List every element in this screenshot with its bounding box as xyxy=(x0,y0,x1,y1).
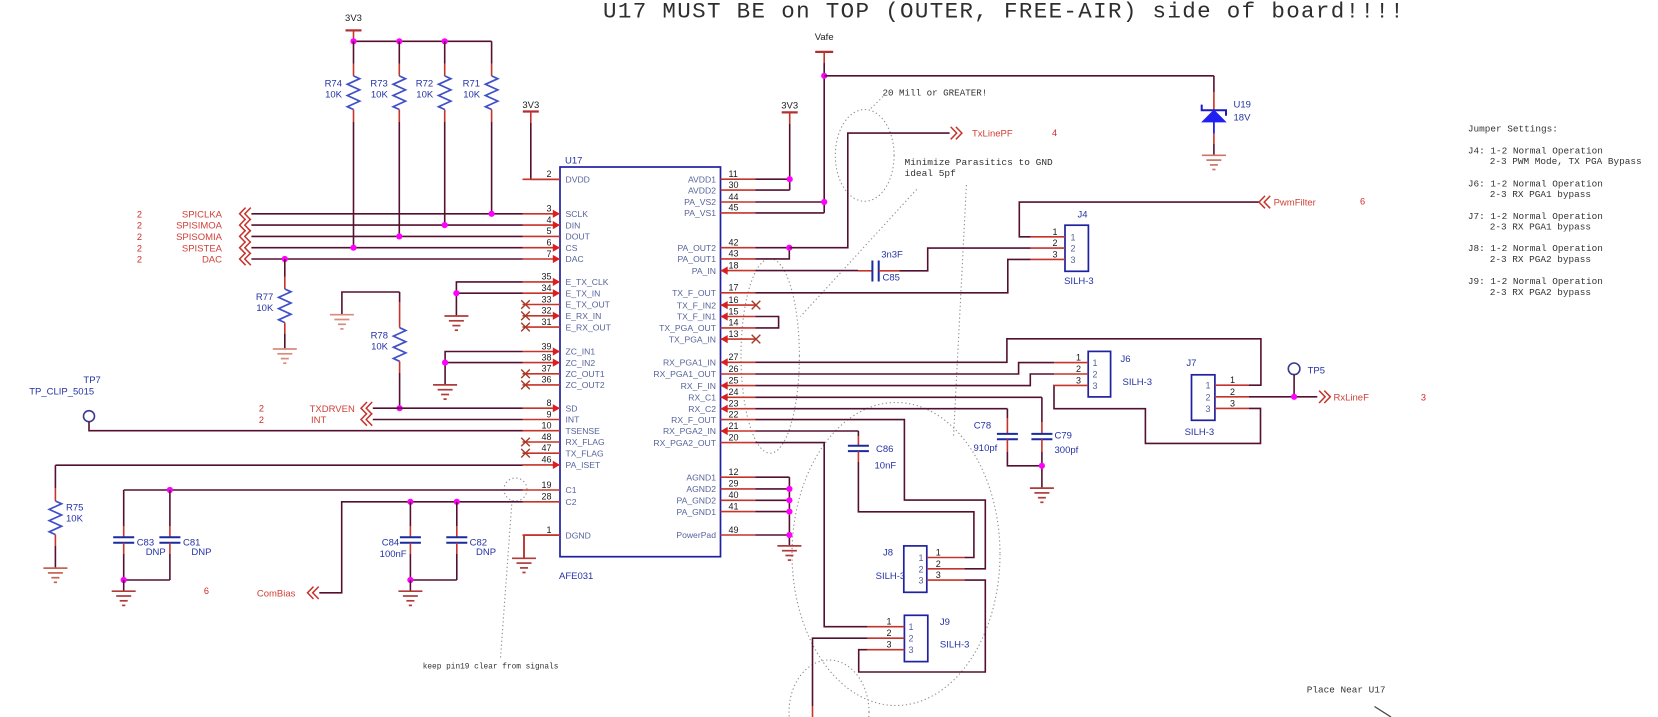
pin J4-3 xyxy=(1031,258,1065,260)
wire R71 to SCLK row xyxy=(491,122,493,214)
connector J8 SILH-3 xyxy=(904,546,927,592)
svg-text:24: 24 xyxy=(729,387,739,397)
svg-text:31: 31 xyxy=(541,317,551,327)
node PA_GND1 xyxy=(786,509,792,515)
svg-text:TX_F_IN2: TX_F_IN2 xyxy=(677,300,716,310)
node SPISIMOA junction xyxy=(442,222,448,228)
svg-text:R78: R78 xyxy=(371,331,388,342)
svg-text:2: 2 xyxy=(1071,244,1076,254)
svg-text:TP_CLIP_5015: TP_CLIP_5015 xyxy=(29,386,94,397)
svg-text:E_RX_OUT: E_RX_OUT xyxy=(566,322,612,332)
svg-text:28: 28 xyxy=(541,492,551,502)
ground R78 xyxy=(330,315,354,329)
node AGND2 xyxy=(786,486,792,492)
wire SPISTEA net xyxy=(251,247,522,249)
wire RX_PGA1_IN to J7 pin1 xyxy=(755,339,1261,385)
wire PowerPad net xyxy=(755,534,789,536)
wire Vafe rail to U19 xyxy=(824,75,1214,77)
pin J8-2 xyxy=(927,568,965,570)
pin J6-1 xyxy=(1054,362,1088,364)
svg-text:3V3: 3V3 xyxy=(522,100,539,111)
svg-text:2-3 RX PGA1 bypass: 2-3 RX PGA1 bypass xyxy=(1490,221,1591,232)
svg-text:DNP: DNP xyxy=(476,547,496,558)
pin 18 PA_IN xyxy=(721,270,756,272)
pin J8-1 xyxy=(927,557,965,559)
svg-text:16: 16 xyxy=(729,295,739,305)
wire DVDD net xyxy=(530,112,532,124)
svg-text:SILH-3: SILH-3 xyxy=(940,640,970,651)
ground R77 xyxy=(273,349,297,363)
svg-text:6: 6 xyxy=(546,238,551,248)
pin 16 TX_F_IN2 xyxy=(721,304,756,306)
pin 7 DAC xyxy=(523,258,561,260)
svg-text:R72: R72 xyxy=(416,79,433,90)
svg-text:45: 45 xyxy=(729,203,739,213)
pin 17 TX_F_OUT xyxy=(721,292,756,294)
resistor R74 xyxy=(347,76,359,110)
svg-text:TX_FLAG: TX_FLAG xyxy=(566,448,605,458)
svg-text:U19: U19 xyxy=(1234,99,1251,110)
svg-text:RX_F_IN: RX_F_IN xyxy=(681,381,716,391)
svg-text:U17: U17 xyxy=(565,156,582,167)
resistor R77 xyxy=(284,259,286,277)
svg-text:DVDD: DVDD xyxy=(566,175,590,185)
svg-text:RX_PGA2_OUT: RX_PGA2_OUT xyxy=(653,438,716,448)
port RxLineF xyxy=(1319,391,1330,403)
svg-text:PA_GND1: PA_GND1 xyxy=(677,507,717,517)
svg-text:J8: J8 xyxy=(883,547,893,558)
pin 29 AGND2 xyxy=(721,488,756,490)
wire RX_F_OUT to J8 pin2 xyxy=(755,420,985,569)
svg-text:9: 9 xyxy=(546,409,551,419)
pin 19 C1 xyxy=(523,489,561,491)
pin J7-2 xyxy=(1215,396,1249,398)
pin 45 PA_VS1 xyxy=(721,212,756,214)
pin 28 C2 xyxy=(523,501,561,503)
wire PA_OUT1 net xyxy=(755,248,789,259)
svg-text:26: 26 xyxy=(729,364,739,374)
svg-text:Minimize Parasitics to GND: Minimize Parasitics to GND xyxy=(905,157,1054,168)
svg-text:3V3: 3V3 xyxy=(345,13,362,24)
svg-text:14: 14 xyxy=(729,318,739,328)
svg-text:TX_F_OUT: TX_F_OUT xyxy=(672,288,717,298)
svg-text:2: 2 xyxy=(137,209,142,219)
svg-text:3: 3 xyxy=(1052,249,1057,259)
svg-text:SPISOMIA: SPISOMIA xyxy=(176,232,223,243)
resistor R78 xyxy=(399,292,401,302)
svg-text:27: 27 xyxy=(729,352,739,362)
wire PA_VS2 net xyxy=(755,201,824,203)
svg-text:33: 33 xyxy=(541,294,551,304)
svg-text:2: 2 xyxy=(259,415,264,425)
connector J7 SILH-3 xyxy=(1192,375,1215,421)
pin 47 TX_FLAG xyxy=(523,452,561,454)
capacitor C78 xyxy=(1006,409,1008,418)
resistor R73 xyxy=(393,76,405,110)
svg-text:SILH-3: SILH-3 xyxy=(1123,377,1153,388)
svg-text:1: 1 xyxy=(1093,358,1098,368)
svg-text:2: 2 xyxy=(1205,392,1210,402)
wire R78 top to ground xyxy=(342,292,400,315)
pin J4-2 xyxy=(1031,247,1065,249)
svg-text:R73: R73 xyxy=(370,79,387,90)
pin 12 AGND1 xyxy=(721,476,756,478)
svg-text:18V: 18V xyxy=(1234,112,1252,123)
svg-text:2: 2 xyxy=(1052,238,1057,248)
wire R74 column xyxy=(353,41,355,63)
ground C84 xyxy=(398,591,422,605)
svg-text:ZC_IN1: ZC_IN1 xyxy=(566,347,596,357)
pin 26 RX_PGA1_OUT xyxy=(721,373,756,375)
svg-text:3: 3 xyxy=(1421,393,1426,403)
svg-text:PA_OUT1: PA_OUT1 xyxy=(677,254,716,264)
connector J4 SILH-3 xyxy=(1065,225,1088,271)
connector J6 SILH-3 xyxy=(1088,351,1110,397)
pin 42 PA_OUT2 xyxy=(721,247,756,249)
pin 43 PA_OUT1 xyxy=(721,258,756,260)
wire AVDD2 net xyxy=(755,189,790,191)
pin 20 RX_PGA2_OUT xyxy=(721,442,756,444)
pin 23 RX_C2 xyxy=(721,408,756,410)
pin 25 RX_F_IN xyxy=(721,385,756,387)
svg-text:41: 41 xyxy=(729,501,739,511)
svg-text:1: 1 xyxy=(1052,227,1057,237)
svg-text:TX_PGA_IN: TX_PGA_IN xyxy=(669,334,716,344)
svg-text:INT: INT xyxy=(311,415,327,426)
svg-text:23: 23 xyxy=(729,399,739,409)
svg-text:11: 11 xyxy=(729,169,738,179)
wire SPISOMIA net xyxy=(251,235,522,237)
svg-text:3V3: 3V3 xyxy=(781,101,798,112)
svg-text:J7: 1-2 Normal Operation: J7: 1-2 Normal Operation xyxy=(1468,211,1603,222)
wire C85 to J4 pin2 xyxy=(899,248,1030,271)
pin 46 PA_ISET xyxy=(523,464,561,466)
svg-text:DIN: DIN xyxy=(566,220,581,230)
svg-text:TP7: TP7 xyxy=(83,375,100,386)
svg-text:5: 5 xyxy=(546,226,551,236)
svg-text:RxLineF: RxLineF xyxy=(1334,392,1370,403)
wire RX_C2 to C78 xyxy=(755,408,1007,410)
svg-text:910pf: 910pf xyxy=(974,443,998,454)
layout note ellipse (RX jumpers J8 J9) xyxy=(792,403,1000,706)
svg-text:PA_IN: PA_IN xyxy=(692,266,716,276)
wire RX_F_IN to J6 pin2 xyxy=(755,374,1054,386)
node TP5 junction xyxy=(1291,394,1297,400)
pin 31 E_RX_OUT xyxy=(523,326,561,328)
svg-text:RX_PGA1_IN: RX_PGA1_IN xyxy=(663,358,716,368)
svg-text:TP5: TP5 xyxy=(1308,365,1325,376)
pin 38 ZC_IN2 xyxy=(523,362,561,364)
svg-text:2: 2 xyxy=(1076,364,1081,374)
svg-text:300pf: 300pf xyxy=(1055,445,1079,456)
wire PA_GND2 net xyxy=(755,499,789,501)
pin 11 AVDD1 xyxy=(721,178,756,180)
svg-text:40: 40 xyxy=(729,490,739,500)
svg-text:C2: C2 xyxy=(566,497,577,507)
svg-text:1: 1 xyxy=(1071,232,1076,242)
svg-text:SPISTEA: SPISTEA xyxy=(182,243,223,254)
svg-text:E_RX_IN: E_RX_IN xyxy=(566,311,602,321)
pin 40 PA_GND2 xyxy=(721,499,756,501)
svg-text:PowerPad: PowerPad xyxy=(676,530,716,540)
svg-text:R75: R75 xyxy=(66,503,83,514)
note leader (Minimize Parasitics to RX ellipse) xyxy=(954,185,967,437)
svg-text:1: 1 xyxy=(936,548,941,558)
svg-text:6: 6 xyxy=(1360,196,1365,206)
svg-text:1: 1 xyxy=(1205,381,1210,391)
svg-text:10K: 10K xyxy=(325,90,343,101)
note leader (keep pin19 clear) xyxy=(501,501,513,658)
svg-text:21: 21 xyxy=(729,421,739,431)
capacitor C84 xyxy=(409,502,411,526)
pin J9-3 xyxy=(867,649,904,651)
svg-text:30: 30 xyxy=(729,180,739,190)
wire R73 column xyxy=(398,41,400,63)
svg-text:12: 12 xyxy=(729,467,739,477)
svg-text:7: 7 xyxy=(546,249,551,259)
node rail-R74 xyxy=(350,38,356,44)
svg-text:J6: 1-2 Normal Operation: J6: 1-2 Normal Operation xyxy=(1468,178,1603,189)
wire PA_VS1 net xyxy=(755,212,824,214)
svg-text:10K: 10K xyxy=(371,342,389,353)
layout note ellipse (bottom) xyxy=(789,660,869,717)
svg-text:39: 39 xyxy=(541,341,551,351)
pin 35 E_TX_CLK xyxy=(523,281,561,283)
svg-text:18: 18 xyxy=(729,260,739,270)
pin 34 E_TX_IN xyxy=(523,292,561,294)
svg-text:2: 2 xyxy=(936,559,941,569)
node C83 bottom xyxy=(121,577,127,583)
svg-text:R74: R74 xyxy=(325,79,342,90)
wire R72 column xyxy=(444,41,446,63)
svg-text:2: 2 xyxy=(1230,387,1235,397)
svg-text:2: 2 xyxy=(918,564,923,574)
svg-text:3: 3 xyxy=(1093,381,1098,391)
svg-text:Jumper Settings:: Jumper Settings: xyxy=(1468,124,1558,135)
svg-text:1: 1 xyxy=(1230,375,1235,385)
svg-text:C1: C1 xyxy=(566,485,577,495)
wire E_TX_CLK to ground xyxy=(456,282,522,316)
wire TXDRVEN net xyxy=(373,407,523,409)
svg-text:PA_GND2: PA_GND2 xyxy=(677,496,717,506)
svg-text:2: 2 xyxy=(1093,370,1098,380)
wire AGND1 net xyxy=(755,476,789,478)
svg-text:SILH-3: SILH-3 xyxy=(1064,276,1094,287)
svg-text:43: 43 xyxy=(729,249,739,259)
wire J7 pin2 to RxLineF xyxy=(1249,396,1317,398)
node PA_VS junction xyxy=(821,199,827,205)
wire R71 lower lead xyxy=(491,110,493,123)
node AVDD junction xyxy=(787,176,793,182)
power 3V3 (pull-up rail) xyxy=(346,29,362,31)
wire TX_F_IN1 TX_PGA_OUT loop xyxy=(755,317,778,328)
wire J4 pin1 to PwmFilter xyxy=(1019,202,1259,237)
wire AGND rail xyxy=(788,477,790,546)
wire C84-C82 bottom rail xyxy=(410,579,456,581)
op-amp U17 AFE031 body xyxy=(560,167,721,557)
wire RX_PGA2_IN to C86 xyxy=(755,430,858,432)
svg-text:PA_OUT2: PA_OUT2 xyxy=(677,243,716,253)
svg-text:10K: 10K xyxy=(463,90,481,101)
pin 30 AVDD2 xyxy=(721,189,756,191)
wire SPICLKA net xyxy=(251,213,522,215)
wire SPISIMOA net xyxy=(251,224,522,226)
svg-text:44: 44 xyxy=(729,192,739,202)
layout note ellipse (TxLinePF trace) xyxy=(835,109,894,201)
svg-text:AGND2: AGND2 xyxy=(686,484,716,494)
wire ComBias net xyxy=(319,502,522,593)
svg-text:RX_F_OUT: RX_F_OUT xyxy=(671,415,717,425)
note circle (keep pin19 clear) xyxy=(504,478,527,501)
power 3V3 (DVDD) xyxy=(523,110,539,112)
wire R74 to CS row xyxy=(353,122,355,248)
ground ZC xyxy=(433,385,457,399)
node C81 top xyxy=(167,487,173,493)
svg-text:17: 17 xyxy=(729,283,739,293)
svg-text:3: 3 xyxy=(1071,255,1076,265)
svg-text:3: 3 xyxy=(918,576,923,586)
svg-text:RX_FLAG: RX_FLAG xyxy=(566,437,605,447)
svg-text:DNP: DNP xyxy=(191,547,211,558)
svg-text:1: 1 xyxy=(909,622,914,632)
node SPICLKA junction xyxy=(489,211,495,217)
svg-text:DAC: DAC xyxy=(202,255,222,266)
capacitor C82 xyxy=(456,502,458,526)
pin 2 DVDD xyxy=(523,178,561,180)
svg-text:2: 2 xyxy=(546,169,551,179)
wire C86 to J8 pin1 xyxy=(858,462,974,558)
svg-text:38: 38 xyxy=(541,352,551,362)
svg-text:RX_PGA1_OUT: RX_PGA1_OUT xyxy=(653,369,716,379)
pin 22 RX_F_OUT xyxy=(721,419,756,421)
note leader (20 Mill) xyxy=(869,97,883,111)
svg-text:Place Near U17: Place Near U17 xyxy=(1307,685,1386,696)
svg-text:INT: INT xyxy=(566,415,581,425)
svg-text:49: 49 xyxy=(729,525,739,535)
wire AGND2 net xyxy=(755,488,789,490)
svg-text:2: 2 xyxy=(137,221,142,231)
svg-text:36: 36 xyxy=(541,375,551,385)
svg-text:48: 48 xyxy=(541,432,551,442)
svg-text:TxLinePF: TxLinePF xyxy=(972,129,1013,140)
svg-text:1: 1 xyxy=(886,617,891,627)
ground C78 C79 xyxy=(1030,488,1054,502)
node C82 top xyxy=(454,499,460,505)
svg-text:DAC: DAC xyxy=(566,254,584,264)
pin 21 RX_PGA2_IN xyxy=(721,430,756,432)
node PA_GND2 xyxy=(786,497,792,503)
node PA_OUT junction xyxy=(786,245,792,251)
svg-text:AVDD1: AVDD1 xyxy=(688,174,716,184)
resistor R71 xyxy=(485,76,497,110)
node Vafe rail junction xyxy=(821,73,827,79)
svg-text:ideal 5pf: ideal 5pf xyxy=(905,168,957,179)
svg-text:25: 25 xyxy=(729,375,739,385)
pin 36 ZC_OUT2 xyxy=(523,384,561,386)
svg-text:34: 34 xyxy=(541,283,551,293)
svg-text:J9: J9 xyxy=(940,617,950,628)
svg-text:47: 47 xyxy=(541,443,551,453)
svg-text:PA_ISET: PA_ISET xyxy=(566,460,601,470)
pin 39 ZC_IN1 xyxy=(523,351,561,353)
wire RX_PGA2_OUT to J9 pin1 xyxy=(755,443,867,627)
pin 5 DOUT xyxy=(523,235,561,237)
connector J9 SILH-3 xyxy=(904,615,927,661)
note leader (Place Near U17) xyxy=(1375,707,1392,717)
wire R73 lower lead xyxy=(398,110,400,123)
wire ZC_IN2 to ground xyxy=(445,362,522,364)
node SPISTEA junction xyxy=(350,245,356,251)
svg-text:2: 2 xyxy=(909,634,914,644)
wire PA_OUT2 net xyxy=(755,247,789,249)
svg-text:SCLK: SCLK xyxy=(566,209,589,219)
svg-text:3n3F: 3n3F xyxy=(881,250,903,261)
svg-text:E_TX_OUT: E_TX_OUT xyxy=(566,300,611,310)
svg-text:2: 2 xyxy=(137,243,142,253)
pin 14 TX_PGA_OUT xyxy=(721,327,756,329)
node DAC junction xyxy=(282,256,288,262)
svg-text:6: 6 xyxy=(204,586,209,596)
node C84 bottom xyxy=(407,577,413,583)
capacitor C85 xyxy=(755,270,858,272)
svg-text:15: 15 xyxy=(729,306,739,316)
node PowerPad xyxy=(786,532,792,538)
capacitor C79 xyxy=(1041,397,1043,422)
svg-text:ZC_OUT2: ZC_OUT2 xyxy=(566,380,605,390)
svg-text:PA_VS1: PA_VS1 xyxy=(684,208,716,218)
pin J9-1 xyxy=(867,626,904,628)
svg-text:C78: C78 xyxy=(974,421,991,432)
pin 15 TX_F_IN1 xyxy=(721,316,756,318)
svg-text:SPISIMOA: SPISIMOA xyxy=(176,221,223,232)
svg-text:10nF: 10nF xyxy=(875,461,897,472)
svg-text:ZC_IN2: ZC_IN2 xyxy=(566,358,596,368)
svg-text:PwmFilter: PwmFilter xyxy=(1274,198,1316,209)
svg-text:U17 MUST BE on TOP (OUTER, FRE: U17 MUST BE on TOP (OUTER, FREE-AIR) sid… xyxy=(603,0,1405,25)
node rail-R73 xyxy=(396,38,402,44)
wire J8 pin3 to J9 pin3 xyxy=(859,580,986,672)
pin 24 RX_C1 xyxy=(721,396,756,398)
ground E_TX xyxy=(444,316,468,330)
wire R74 lower lead xyxy=(353,110,355,123)
svg-text:SPICLKA: SPICLKA xyxy=(182,209,223,220)
pin 4 DIN xyxy=(523,224,561,226)
ground C83 xyxy=(112,591,136,605)
svg-text:AGND1: AGND1 xyxy=(686,472,716,482)
ground AGND xyxy=(777,546,801,560)
pin J6-2 xyxy=(1054,373,1088,375)
svg-text:20: 20 xyxy=(729,432,739,442)
svg-text:DNP: DNP xyxy=(146,547,166,558)
resistor R72 xyxy=(439,76,451,110)
pin J4-1 xyxy=(1031,236,1065,238)
node ZC junction xyxy=(442,360,448,366)
wire C83 ground lead xyxy=(123,580,125,591)
wire TX_F_OUT to J4 pin3 xyxy=(755,259,1030,292)
svg-text:RX_PGA2_IN: RX_PGA2_IN xyxy=(663,426,716,436)
node SPISOMIA junction xyxy=(396,233,402,239)
svg-text:keep pin19 clear from signals: keep pin19 clear from signals xyxy=(423,663,559,671)
svg-text:J6: J6 xyxy=(1121,354,1131,365)
svg-text:1: 1 xyxy=(546,525,551,535)
svg-text:2-3 PWM Mode, TX PGA Bypass: 2-3 PWM Mode, TX PGA Bypass xyxy=(1490,156,1642,167)
wire PA_GND1 net xyxy=(755,511,789,513)
node rail-R72 xyxy=(442,38,448,44)
svg-text:3: 3 xyxy=(546,204,551,214)
svg-text:PA_VS2: PA_VS2 xyxy=(684,197,716,207)
diode U19 zener 18V xyxy=(1213,76,1215,92)
svg-text:10K: 10K xyxy=(416,90,434,101)
